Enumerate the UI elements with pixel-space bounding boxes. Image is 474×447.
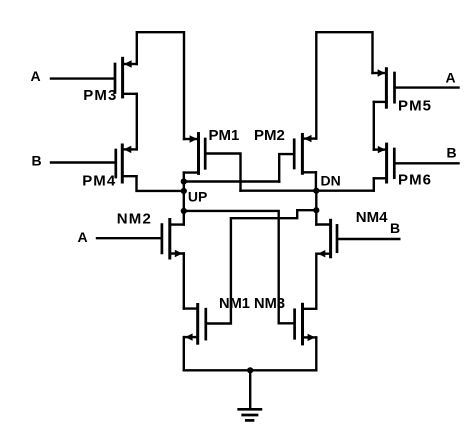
svg-text:NM2: NM2 — [117, 210, 151, 227]
wire DN column down — [315, 191, 317, 225]
transistor PM4 — [116, 145, 137, 182]
svg-text:UP: UP — [188, 189, 207, 205]
transistor PM3 — [115, 58, 137, 97]
transistor PM1 — [184, 134, 205, 174]
wire UP column down — [183, 182, 185, 225]
wire NM4 source to NM3 drain — [315, 254, 317, 309]
svg-text:PM6: PM6 — [398, 171, 431, 188]
wire NM1 source to ground rail — [183, 337, 185, 370]
svg-text:A: A — [31, 68, 41, 84]
svg-text:NM1 NM3: NM1 NM3 — [219, 295, 285, 312]
transistor PM5 — [373, 69, 395, 108]
wire A to NM2 gate — [97, 237, 161, 239]
wire PM3 drain to PM4 source — [136, 94, 138, 150]
node ground junction — [247, 367, 253, 373]
wire VDD loop left — [137, 32, 184, 139]
transistor NM4 — [316, 220, 337, 257]
svg-text:B: B — [390, 220, 400, 236]
transistor PM2 — [294, 135, 316, 174]
transistor NM1 — [184, 305, 206, 344]
wire B to PM4 gate — [51, 161, 115, 163]
wire PM6 gate to B — [394, 162, 458, 164]
wire NM3 source to ground rail — [315, 337, 317, 370]
wire PM2 source and VDD loop right — [316, 32, 372, 138]
wire DN rail — [241, 189, 374, 191]
transistor NM2 — [162, 220, 184, 259]
svg-text:NM4: NM4 — [356, 209, 388, 226]
svg-text:PM1: PM1 — [209, 127, 240, 144]
wire PM2 gate to UP rail — [279, 154, 293, 181]
wire PM6 drain to DN rail — [373, 178, 375, 190]
svg-text:B: B — [447, 145, 457, 161]
transistor NM3 — [295, 304, 317, 344]
ground — [239, 370, 261, 420]
wire B to NM4 gate — [339, 238, 400, 240]
wire UP rail — [184, 180, 279, 182]
svg-text:PM2: PM2 — [254, 127, 285, 144]
wire PM2 drain to node DN — [315, 172, 317, 190]
wire NM2 source to NM1 drain — [183, 254, 185, 309]
wire PM5 drain to PM6 source — [373, 102, 375, 150]
svg-text:A: A — [78, 229, 88, 245]
wire A to PM3 gate — [51, 77, 114, 79]
wire ground rail — [184, 369, 316, 371]
wire PM1 gate to DN rail — [205, 154, 240, 191]
node DN junction dots — [313, 188, 319, 214]
wire UP to NM3 gate — [184, 211, 294, 323]
svg-text:PM5: PM5 — [398, 97, 431, 114]
svg-text:B: B — [32, 153, 42, 169]
svg-text:PM4: PM4 — [82, 172, 116, 189]
wire PM1 drain to node UP — [183, 173, 185, 182]
transistor PM6 — [374, 144, 395, 182]
node UP junction dots — [181, 178, 187, 214]
svg-text:PM3: PM3 — [83, 87, 116, 104]
svg-text:DN: DN — [321, 172, 341, 188]
wire PM5 gate to A — [395, 86, 459, 88]
wire DN to NM1 gate — [207, 210, 317, 323]
svg-text:A: A — [446, 70, 456, 86]
wire PM4 drain to node UP — [137, 176, 184, 191]
